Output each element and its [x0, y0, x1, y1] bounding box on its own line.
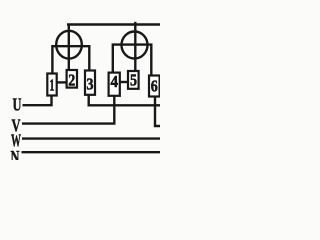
- wire: P1 current coil arm to terminals 1 and 3: [52, 46, 89, 74]
- wire: P2 vertical diameter / voltage tap to terminal 5: [134, 22, 136, 72]
- svg-text:2: 2: [68, 71, 75, 90]
- svg-text:N: N: [11, 147, 20, 160]
- svg-text:U: U: [13, 95, 22, 115]
- terminal 4 box: [109, 73, 120, 96]
- svg-text:4: 4: [110, 72, 118, 91]
- wire: phase W line: [22, 137, 160, 139]
- svg-text:3: 3: [87, 75, 94, 94]
- terminal 6 box: [149, 76, 160, 97]
- wire: top voltage bus: [67, 23, 160, 25]
- wire: link terminal 4 - terminal 5: [120, 81, 128, 83]
- wire: P2 current coil arm to terminals 4 and 6: [113, 45, 152, 76]
- svg-text:5: 5: [130, 71, 137, 90]
- wire: link terminal 1 - terminal 2: [57, 81, 67, 83]
- meter element P1 (circle with cross): [56, 31, 82, 59]
- wire: phase V line to terminal 4: [22, 96, 114, 124]
- svg-text:1: 1: [50, 76, 55, 95]
- terminal 1 box: [47, 74, 56, 96]
- terminal 3 box: [85, 71, 95, 95]
- wire: phase U line to terminal 1: [23, 95, 52, 105]
- meter element P2 (circle with cross): [122, 32, 148, 59]
- wire: neutral N line: [22, 151, 161, 153]
- terminal 5 box: [128, 71, 139, 89]
- wire: P1 vertical diameter / voltage tap to terminal 2: [68, 25, 70, 71]
- svg-text:6: 6: [151, 77, 158, 96]
- wire: terminal 6 output to load: [155, 97, 160, 126]
- terminal 2 box: [67, 70, 77, 88]
- wire: terminal 3 output to load: [89, 95, 160, 106]
